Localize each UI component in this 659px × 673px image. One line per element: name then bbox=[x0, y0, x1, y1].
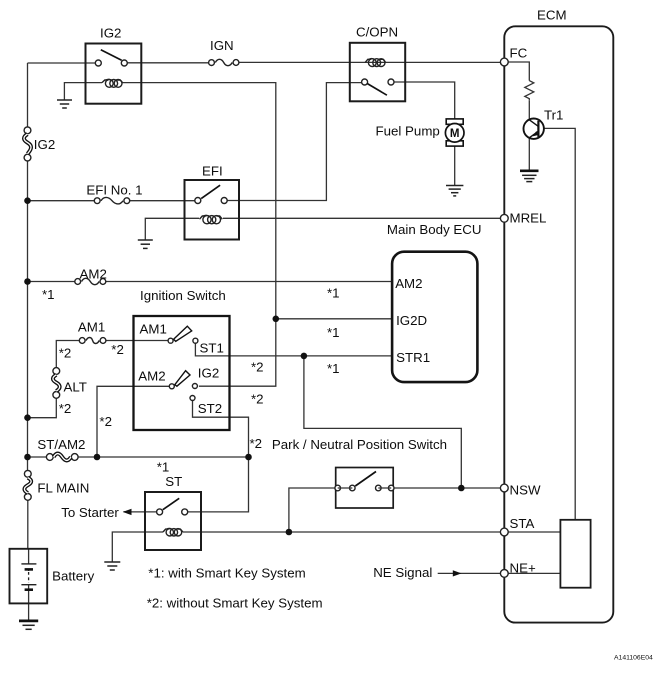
svg-text:*2: *2 bbox=[59, 346, 72, 361]
svg-text:AM2: AM2 bbox=[138, 369, 165, 384]
svg-text:MREL: MREL bbox=[510, 211, 547, 226]
svg-text:AM1: AM1 bbox=[78, 320, 105, 335]
svg-text:IG2: IG2 bbox=[100, 26, 121, 41]
svg-text:ST2: ST2 bbox=[198, 401, 222, 416]
svg-text:Ignition Switch: Ignition Switch bbox=[140, 288, 226, 303]
svg-text:*1: *1 bbox=[157, 460, 170, 475]
svg-text:M: M bbox=[450, 128, 460, 140]
svg-text:ST/AM2: ST/AM2 bbox=[37, 437, 85, 452]
svg-text:FL MAIN: FL MAIN bbox=[37, 481, 89, 496]
svg-text:A141106E04: A141106E04 bbox=[614, 655, 653, 662]
svg-text:STA: STA bbox=[510, 516, 535, 531]
svg-text:Tr1: Tr1 bbox=[544, 108, 563, 123]
svg-text:EFI: EFI bbox=[202, 164, 223, 179]
svg-text:ECM: ECM bbox=[537, 8, 567, 23]
svg-text:*2: *2 bbox=[251, 360, 264, 375]
svg-text:AM2: AM2 bbox=[395, 276, 422, 291]
svg-text:ST: ST bbox=[165, 474, 182, 489]
svg-text:*2: *2 bbox=[250, 436, 263, 451]
svg-text:NE+: NE+ bbox=[510, 561, 536, 576]
svg-text:IG2D: IG2D bbox=[396, 313, 427, 328]
svg-text:*1: *1 bbox=[327, 286, 340, 301]
svg-text:C/OPN: C/OPN bbox=[356, 25, 398, 40]
svg-text:*1: *1 bbox=[42, 287, 55, 302]
svg-text:NSW: NSW bbox=[510, 483, 541, 498]
svg-text:STR1: STR1 bbox=[396, 350, 430, 365]
svg-text:To Starter: To Starter bbox=[61, 505, 119, 520]
svg-text:*2: *2 bbox=[251, 392, 264, 407]
svg-text:*2: without Smart Key System: *2: without Smart Key System bbox=[147, 596, 323, 611]
svg-text:IGN: IGN bbox=[210, 38, 234, 53]
svg-text:NE Signal: NE Signal bbox=[373, 565, 432, 580]
svg-text:AM2: AM2 bbox=[80, 267, 107, 282]
svg-text:Park / Neutral Position Switch: Park / Neutral Position Switch bbox=[272, 437, 447, 452]
svg-text:ST1: ST1 bbox=[200, 341, 224, 356]
svg-text:IG2: IG2 bbox=[198, 366, 219, 381]
svg-text:*2: *2 bbox=[59, 401, 72, 416]
svg-text:AM1: AM1 bbox=[140, 322, 167, 337]
svg-text:FC: FC bbox=[510, 46, 528, 61]
svg-text:IG2: IG2 bbox=[34, 137, 55, 152]
svg-text:ALT: ALT bbox=[64, 380, 87, 395]
svg-text:*1: *1 bbox=[327, 361, 340, 376]
svg-text:*2: *2 bbox=[111, 342, 124, 357]
svg-text:*1: *1 bbox=[327, 325, 340, 340]
svg-text:Fuel Pump: Fuel Pump bbox=[376, 124, 440, 139]
svg-text:Main Body ECU: Main Body ECU bbox=[387, 222, 482, 237]
svg-text:EFI No. 1: EFI No. 1 bbox=[86, 183, 142, 198]
svg-text:Battery: Battery bbox=[52, 569, 94, 584]
svg-text:*2: *2 bbox=[99, 414, 112, 429]
svg-text:*1: with Smart Key System: *1: with Smart Key System bbox=[148, 566, 305, 581]
